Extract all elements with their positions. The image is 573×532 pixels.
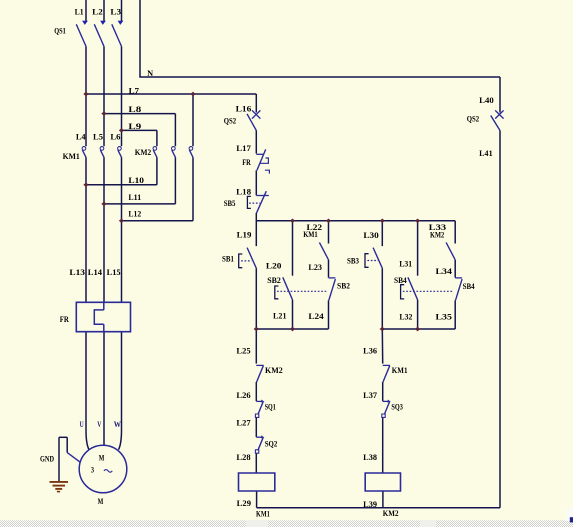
svg-text:L1: L1 xyxy=(75,7,84,16)
svg-text:L30: L30 xyxy=(363,231,378,240)
svg-text:3: 3 xyxy=(91,466,94,475)
svg-text:KM2: KM2 xyxy=(265,366,283,375)
svg-text:L15: L15 xyxy=(107,268,121,277)
svg-text:L9: L9 xyxy=(128,122,141,131)
svg-text:FR: FR xyxy=(60,315,69,324)
svg-text:L11: L11 xyxy=(128,193,141,202)
svg-text:L19: L19 xyxy=(237,230,252,239)
svg-text:SB5: SB5 xyxy=(224,199,236,208)
svg-text:SB2: SB2 xyxy=(337,281,350,290)
svg-text:L14: L14 xyxy=(88,268,102,277)
svg-text:L5: L5 xyxy=(93,133,103,142)
svg-text:L35: L35 xyxy=(436,313,452,322)
svg-text:KM1: KM1 xyxy=(63,152,80,161)
svg-text:L41: L41 xyxy=(479,149,492,158)
svg-text:L18: L18 xyxy=(236,188,251,197)
svg-text:L17: L17 xyxy=(236,144,251,153)
svg-text:L29: L29 xyxy=(237,499,251,508)
svg-text:KM2: KM2 xyxy=(383,509,399,518)
svg-text:L2: L2 xyxy=(92,7,103,16)
svg-text:L6: L6 xyxy=(110,133,120,142)
svg-text:L40: L40 xyxy=(479,96,494,105)
svg-text:L39: L39 xyxy=(363,500,377,509)
svg-text:L8: L8 xyxy=(128,105,141,114)
svg-text:SB4: SB4 xyxy=(463,282,475,291)
svg-text:L21: L21 xyxy=(273,312,287,321)
svg-text:L37: L37 xyxy=(363,391,377,400)
svg-text:L7: L7 xyxy=(129,86,139,95)
svg-text:N: N xyxy=(147,69,153,78)
svg-text:QS2: QS2 xyxy=(224,116,236,125)
svg-text:L36: L36 xyxy=(363,346,377,355)
svg-text:SB1: SB1 xyxy=(222,254,234,263)
svg-text:SQ1: SQ1 xyxy=(265,402,276,411)
svg-text:L32: L32 xyxy=(399,313,412,322)
svg-text:QS1: QS1 xyxy=(54,26,66,35)
svg-text:KM1: KM1 xyxy=(303,230,318,239)
svg-text:U: U xyxy=(80,420,84,429)
svg-text:KM1: KM1 xyxy=(392,366,408,375)
svg-text:KM2: KM2 xyxy=(430,231,444,240)
svg-text:KM1: KM1 xyxy=(256,509,270,518)
svg-text:L28: L28 xyxy=(236,453,250,462)
svg-text:M: M xyxy=(99,454,105,463)
svg-text:L25: L25 xyxy=(236,346,250,355)
svg-text:L13: L13 xyxy=(69,268,85,277)
svg-text:L34: L34 xyxy=(436,267,452,276)
svg-text:L27: L27 xyxy=(236,419,250,428)
svg-text:L12: L12 xyxy=(128,210,141,219)
svg-text:L26: L26 xyxy=(236,391,250,400)
svg-text:L23: L23 xyxy=(308,263,322,272)
svg-text:L38: L38 xyxy=(363,453,377,462)
svg-text:SB3: SB3 xyxy=(347,256,359,265)
svg-text:FR: FR xyxy=(242,158,251,167)
svg-text:L10: L10 xyxy=(128,176,144,185)
svg-text:M: M xyxy=(98,497,104,506)
svg-text:SB2: SB2 xyxy=(267,276,281,285)
svg-text:W: W xyxy=(114,420,121,429)
svg-text:SQ3: SQ3 xyxy=(391,402,403,411)
svg-text:L31: L31 xyxy=(399,260,412,269)
svg-text:GND: GND xyxy=(40,454,54,463)
svg-text:KM2: KM2 xyxy=(135,148,151,157)
svg-text:L16: L16 xyxy=(236,105,252,114)
svg-text:L20: L20 xyxy=(266,261,282,270)
svg-text:V: V xyxy=(97,420,101,429)
svg-text:L3: L3 xyxy=(110,7,121,16)
svg-text:L24: L24 xyxy=(308,312,323,321)
svg-text:L4: L4 xyxy=(76,133,86,142)
svg-text:SB4: SB4 xyxy=(394,276,407,285)
svg-text:SQ2: SQ2 xyxy=(265,439,278,448)
svg-text:QS2: QS2 xyxy=(467,114,479,123)
